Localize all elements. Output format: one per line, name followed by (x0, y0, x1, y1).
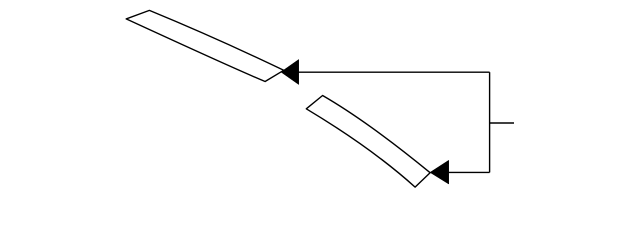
wire: right vertical bus (489, 72, 491, 172)
blade B2 (lower moving blade profile) (306, 96, 430, 188)
stub tick on vertical bus (490, 122, 514, 124)
wire: top horizontal lead (285, 71, 490, 73)
arrowhead A2 (points left at blade B2) (430, 160, 449, 184)
arrowhead A1 (points left at blade B1) (281, 60, 299, 85)
wire: bottom horizontal lead (449, 171, 490, 173)
blade B1 (upper moving blade profile) (126, 10, 284, 81)
